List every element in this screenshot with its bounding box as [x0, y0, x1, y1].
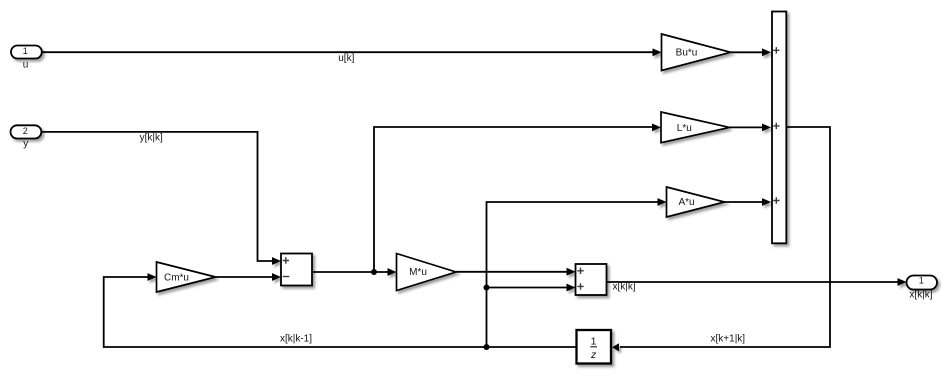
wire unit delay output feedback x[k|k-1] to gain Cm*u — [104, 277, 577, 347]
junction dot sum1 output branch — [371, 269, 377, 275]
arrowhead into unit delay right side — [612, 343, 619, 351]
junction dot feedback to A*u branch — [484, 344, 490, 350]
arrowhead into gain A*u — [658, 198, 667, 206]
svg-text:y: y — [23, 139, 28, 150]
Outport 1 block — [907, 276, 938, 290]
wire sum1 output to gain M*u — [312, 271, 389, 273]
svg-text:Cm*u: Cm*u — [164, 272, 189, 283]
Inport 2 block — [11, 125, 42, 138]
svg-text:x[k+1|k]: x[k+1|k] — [711, 333, 746, 344]
wire branch up to gain A*u — [487, 202, 659, 347]
wire Bu*u output to tall sum — [731, 51, 764, 53]
gain Bu*u — [662, 34, 731, 71]
wire branch to sum2 bottom plus input — [487, 287, 569, 289]
svg-text:1: 1 — [23, 46, 28, 56]
unit delay block 1/z — [577, 330, 612, 364]
wire sum2 output x[k|k] to Outport 1 — [607, 281, 900, 283]
svg-text:z: z — [590, 349, 597, 361]
wire Cm*u output to sum1 minus input — [216, 276, 273, 278]
tall sum block — [772, 12, 786, 244]
arrowhead into sum2 top plus input — [567, 268, 576, 276]
sum2 block (plus plus) — [576, 264, 607, 295]
gain L*u — [661, 112, 730, 143]
wire A*u output to tall sum — [725, 201, 764, 203]
sum1 block (plus minus) — [281, 254, 312, 286]
svg-text:x[k|k]: x[k|k] — [613, 281, 636, 292]
sum1 minus sign — [283, 276, 290, 278]
arrowhead into gain Cm*u — [148, 273, 157, 281]
svg-text:A*u: A*u — [678, 197, 694, 208]
svg-text:1: 1 — [919, 276, 924, 286]
arrowhead into sum1 minus input — [272, 273, 281, 281]
wire branch up to gain L*u — [374, 127, 653, 272]
sum1 plus sign — [283, 257, 289, 263]
gain M*u — [397, 254, 457, 291]
tall sum plus sign (bottom) — [773, 197, 779, 203]
wire L*u output to tall sum — [730, 126, 764, 128]
svg-text:Bu*u: Bu*u — [676, 48, 698, 59]
junction dot feedback to sum2 branch — [484, 285, 490, 291]
sum2 bottom plus sign — [577, 283, 583, 289]
tall sum plus sign (middle) — [773, 123, 779, 129]
Inport 1 block — [11, 46, 42, 59]
arrowhead into sum1 plus input — [272, 257, 281, 265]
svg-text:M*u: M*u — [409, 267, 427, 278]
arrowhead into tall sum (middle) — [762, 124, 771, 132]
svg-text:2: 2 — [23, 126, 28, 136]
wire M*u output to sum2 top plus input — [456, 271, 568, 273]
arrowhead into sum2 bottom plus input — [567, 284, 576, 292]
svg-text:y[k|k]: y[k|k] — [140, 133, 163, 144]
svg-text:L*u: L*u — [677, 123, 692, 134]
arrowhead into gain M*u — [388, 268, 397, 276]
arrowhead into tall sum (bottom) — [762, 198, 771, 206]
arrowhead into gain Bu*u — [653, 48, 662, 56]
wire tall sum output to unit delay (feedback x[k+1|k]) — [620, 127, 830, 347]
svg-text:u[k]: u[k] — [338, 53, 354, 64]
wire u[k] from Inport 1 to gain Bu*u — [42, 51, 655, 53]
unit delay fraction bar — [590, 346, 597, 348]
svg-text:x[k|k-1]: x[k|k-1] — [280, 333, 312, 344]
gain A*u — [667, 187, 725, 217]
arrowhead into tall sum (top) — [762, 48, 771, 56]
svg-text:x[k|k]: x[k|k] — [909, 290, 932, 301]
wire y[k|k] from Inport 2 down to sum1 plus input — [41, 132, 273, 261]
svg-text:u: u — [23, 60, 29, 71]
arrowhead into Outport 1 — [898, 278, 907, 286]
sum2 top plus sign — [577, 268, 583, 274]
tall sum plus sign (top) — [773, 47, 779, 53]
svg-text:1: 1 — [591, 335, 597, 347]
gain Cm*u — [157, 262, 216, 292]
arrowhead into gain L*u — [652, 124, 661, 132]
